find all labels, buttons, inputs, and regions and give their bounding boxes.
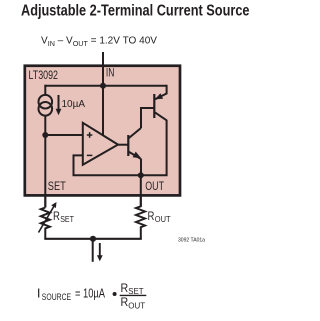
op-amp A1: [83, 123, 118, 165]
wire Q2 collector to OUT node: [141, 120, 167, 176]
current direction arrow ISOURCE: [97, 243, 103, 261]
current direction arrow of I1: [56, 95, 62, 115]
IC U1 LT3092 body: [25, 66, 180, 196]
wire Q2 emitter from IN rail: [166, 85, 168, 94]
pin label SET: [48, 179, 67, 193]
wire op-amp output to Q1 base: [118, 144, 129, 146]
wire left rail lower (to SET pin): [44, 116, 46, 208]
svg-text:= 10µA: = 10µA: [75, 286, 105, 301]
wire OUT lead external: [140, 175, 142, 206]
svg-text:SET: SET: [60, 215, 74, 224]
wire SET lead external: [44, 194, 46, 208]
wire Q1 emitter to OUT node: [140, 159, 142, 176]
svg-text:R: R: [121, 281, 129, 295]
current source I1 10uA: [39, 95, 53, 116]
svg-text:OUT: OUT: [128, 301, 145, 311]
svg-text:IN: IN: [106, 66, 115, 80]
value label RSET: [53, 211, 74, 224]
svg-text:SET: SET: [48, 179, 67, 193]
pin label IN: [106, 66, 115, 80]
svg-text:OUT: OUT: [155, 215, 171, 224]
resistor ROUT: [136, 195, 145, 239]
svg-text:LT3092: LT3092: [29, 70, 59, 82]
svg-text:R: R: [121, 295, 129, 309]
svg-text:R: R: [53, 211, 60, 223]
svg-text:SET: SET: [128, 286, 144, 296]
transistor Q1 NPN: [128, 128, 141, 159]
svg-text:I: I: [37, 286, 41, 301]
value label ROUT: [148, 211, 171, 224]
node OUT junction: [138, 172, 144, 178]
pin label OUT: [145, 179, 164, 193]
wire stub below ISOURCE node: [92, 239, 94, 262]
label LT3092: [29, 70, 59, 82]
svg-text:OUT: OUT: [145, 179, 164, 193]
wire Q1 collector to Q2 base: [141, 108, 154, 128]
wire noninverting input: [45, 134, 83, 136]
svg-text:3092 TA01a: 3092 TA01a: [178, 237, 205, 243]
svg-text:10µA: 10µA: [62, 98, 86, 110]
formula ISOURCE = 10uA x RSET/ROUT: [37, 281, 146, 311]
title: Adjustable 2-Terminal Current Source: [21, 3, 250, 20]
wire IN lead: [102, 52, 104, 86]
node IN junction: [100, 83, 106, 89]
resistor RSET: [41, 208, 50, 239]
label: VIN - VOUT = 1.2V TO 40V: [41, 35, 157, 48]
wire op-amp supply from IN: [102, 86, 104, 136]
svg-text:Adjustable 2-Terminal Current: Adjustable 2-Terminal Current Source: [21, 3, 250, 20]
wire feedback inverting input to OUT node: [74, 155, 142, 175]
wire left rail upper: [44, 85, 46, 95]
note 3092 TA01a: [178, 237, 205, 243]
adjustment arrow of RSET: [39, 202, 57, 233]
svg-text:VIN – VOUT = 1.2V TO 40V: VIN – VOUT = 1.2V TO 40V: [41, 35, 157, 48]
svg-text:R: R: [148, 211, 155, 223]
transistor Q2 PNP: [154, 93, 166, 120]
node ISOURCE junction: [90, 236, 96, 242]
wire bottom rail: [44, 238, 142, 240]
value label 10uA: [62, 98, 86, 110]
svg-text:SOURCE: SOURCE: [42, 292, 71, 302]
node SET junction: [42, 132, 48, 138]
wire internal IN rail: [44, 85, 166, 87]
